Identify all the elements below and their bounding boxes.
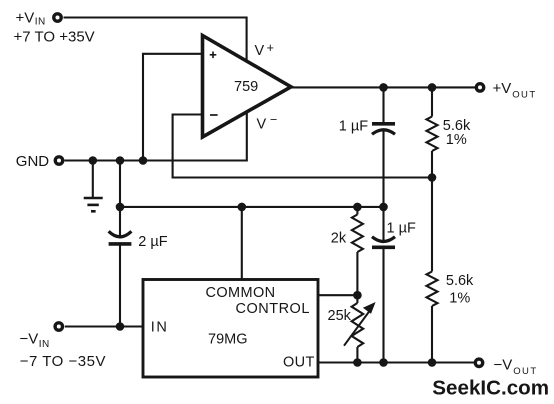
svg-text:1%: 1% [446,132,467,148]
wire COMMON pin [241,207,243,280]
wire -VOUT rail [318,361,476,363]
potentiometer R4 25k zigzag [352,303,364,347]
node common-2k junction [353,203,362,212]
node common-pin junction [238,203,247,212]
svg-text:−: − [270,113,277,127]
resistor R3 2k zigzag [352,215,363,253]
regulator 79MG box [143,280,318,378]
wire 2uF branch lower [119,245,121,327]
wire 5.6k R1 leads [431,87,433,177]
svg-text:5.6k: 5.6k [446,273,474,289]
terminal +VOUT [476,84,483,91]
op-amp U1 759 triangle [203,36,292,138]
node -VIN-2uF junction [116,322,125,331]
svg-text:+7 TO +35V: +7 TO +35V [14,28,95,45]
capacitor C2 1uF top [372,124,395,135]
node divider midpoint [428,173,437,182]
node GND-noninv junction [139,156,148,165]
wire 2uF branch upper [119,161,121,239]
wire GND rail and V- pin [65,112,247,161]
svg-text:IN: IN [151,320,169,336]
svg-text:V: V [257,117,267,133]
svg-text:1 µF: 1 µF [387,220,416,236]
svg-text:1%: 1% [449,290,470,306]
svg-text:25k: 25k [328,308,352,324]
svg-text:V: V [255,43,265,59]
node output-C2 junction [379,83,388,92]
wire op-amp output rail [289,86,476,88]
wire 5.6k R2 leads [431,178,433,363]
wire + input from GND rail [143,54,202,161]
wire bottom 1uF lower lead [382,248,384,363]
svg-text:1 µF: 1 µF [339,119,368,135]
op-amp + input symbol [210,52,217,59]
terminal -VOUT [475,359,482,366]
resistor R2 5.6k zigzag [427,272,438,307]
svg-text:SeekIC.com: SeekIC.com [432,376,549,399]
svg-text:−7 TO −35V: −7 TO −35V [20,353,106,370]
potentiometer 25k arrow [344,302,376,346]
node GND-2uF junction [116,156,125,165]
ground symbol [84,198,103,211]
svg-text:2k: 2k [331,230,347,246]
wire ground symbol stem [92,161,94,198]
svg-text:OUT: OUT [283,355,315,371]
wire CONTROL pin [318,294,357,296]
node common-2uF junction [116,203,125,212]
node GND-ground junction [89,156,98,165]
svg-text:GND: GND [16,153,50,170]
node -VOUT-C3 junction [379,358,388,367]
svg-text:+: + [267,41,274,55]
wire 2k leads [356,207,358,295]
capacitor C3 1uF bottom [372,237,395,248]
svg-text:759: 759 [234,79,258,95]
svg-text:79MG: 79MG [208,331,248,347]
svg-text:CONTROL: CONTROL [236,301,310,317]
wire -VIN to IN pin [65,325,144,327]
wire +VIN rail to V+ pin [64,18,247,61]
node output-R1 junction [428,83,437,92]
wire bottom 1uF upper lead [382,207,384,242]
node -VOUT-25k junction [353,358,362,367]
op-amp - input symbol [210,114,218,116]
capacitor C1 2uF [109,231,132,244]
wire - input feedback to divider midpoint [173,115,432,178]
wire top 1uF lower lead [382,131,384,207]
terminal -VIN [55,323,62,330]
node common-C3 junction [379,203,388,212]
terminal +VIN [54,14,61,21]
svg-text:COMMON: COMMON [206,285,276,301]
wire top 1uF upper lead [382,87,384,122]
wire 25k pot leads [356,295,358,362]
node control-25k junction [353,291,362,300]
resistor R1 5.6k zigzag [427,117,438,152]
svg-text:2 µF: 2 µF [138,234,167,250]
terminal GND [55,157,62,164]
node -VOUT-R2 junction [428,358,437,367]
wire COMMON line [120,206,384,208]
